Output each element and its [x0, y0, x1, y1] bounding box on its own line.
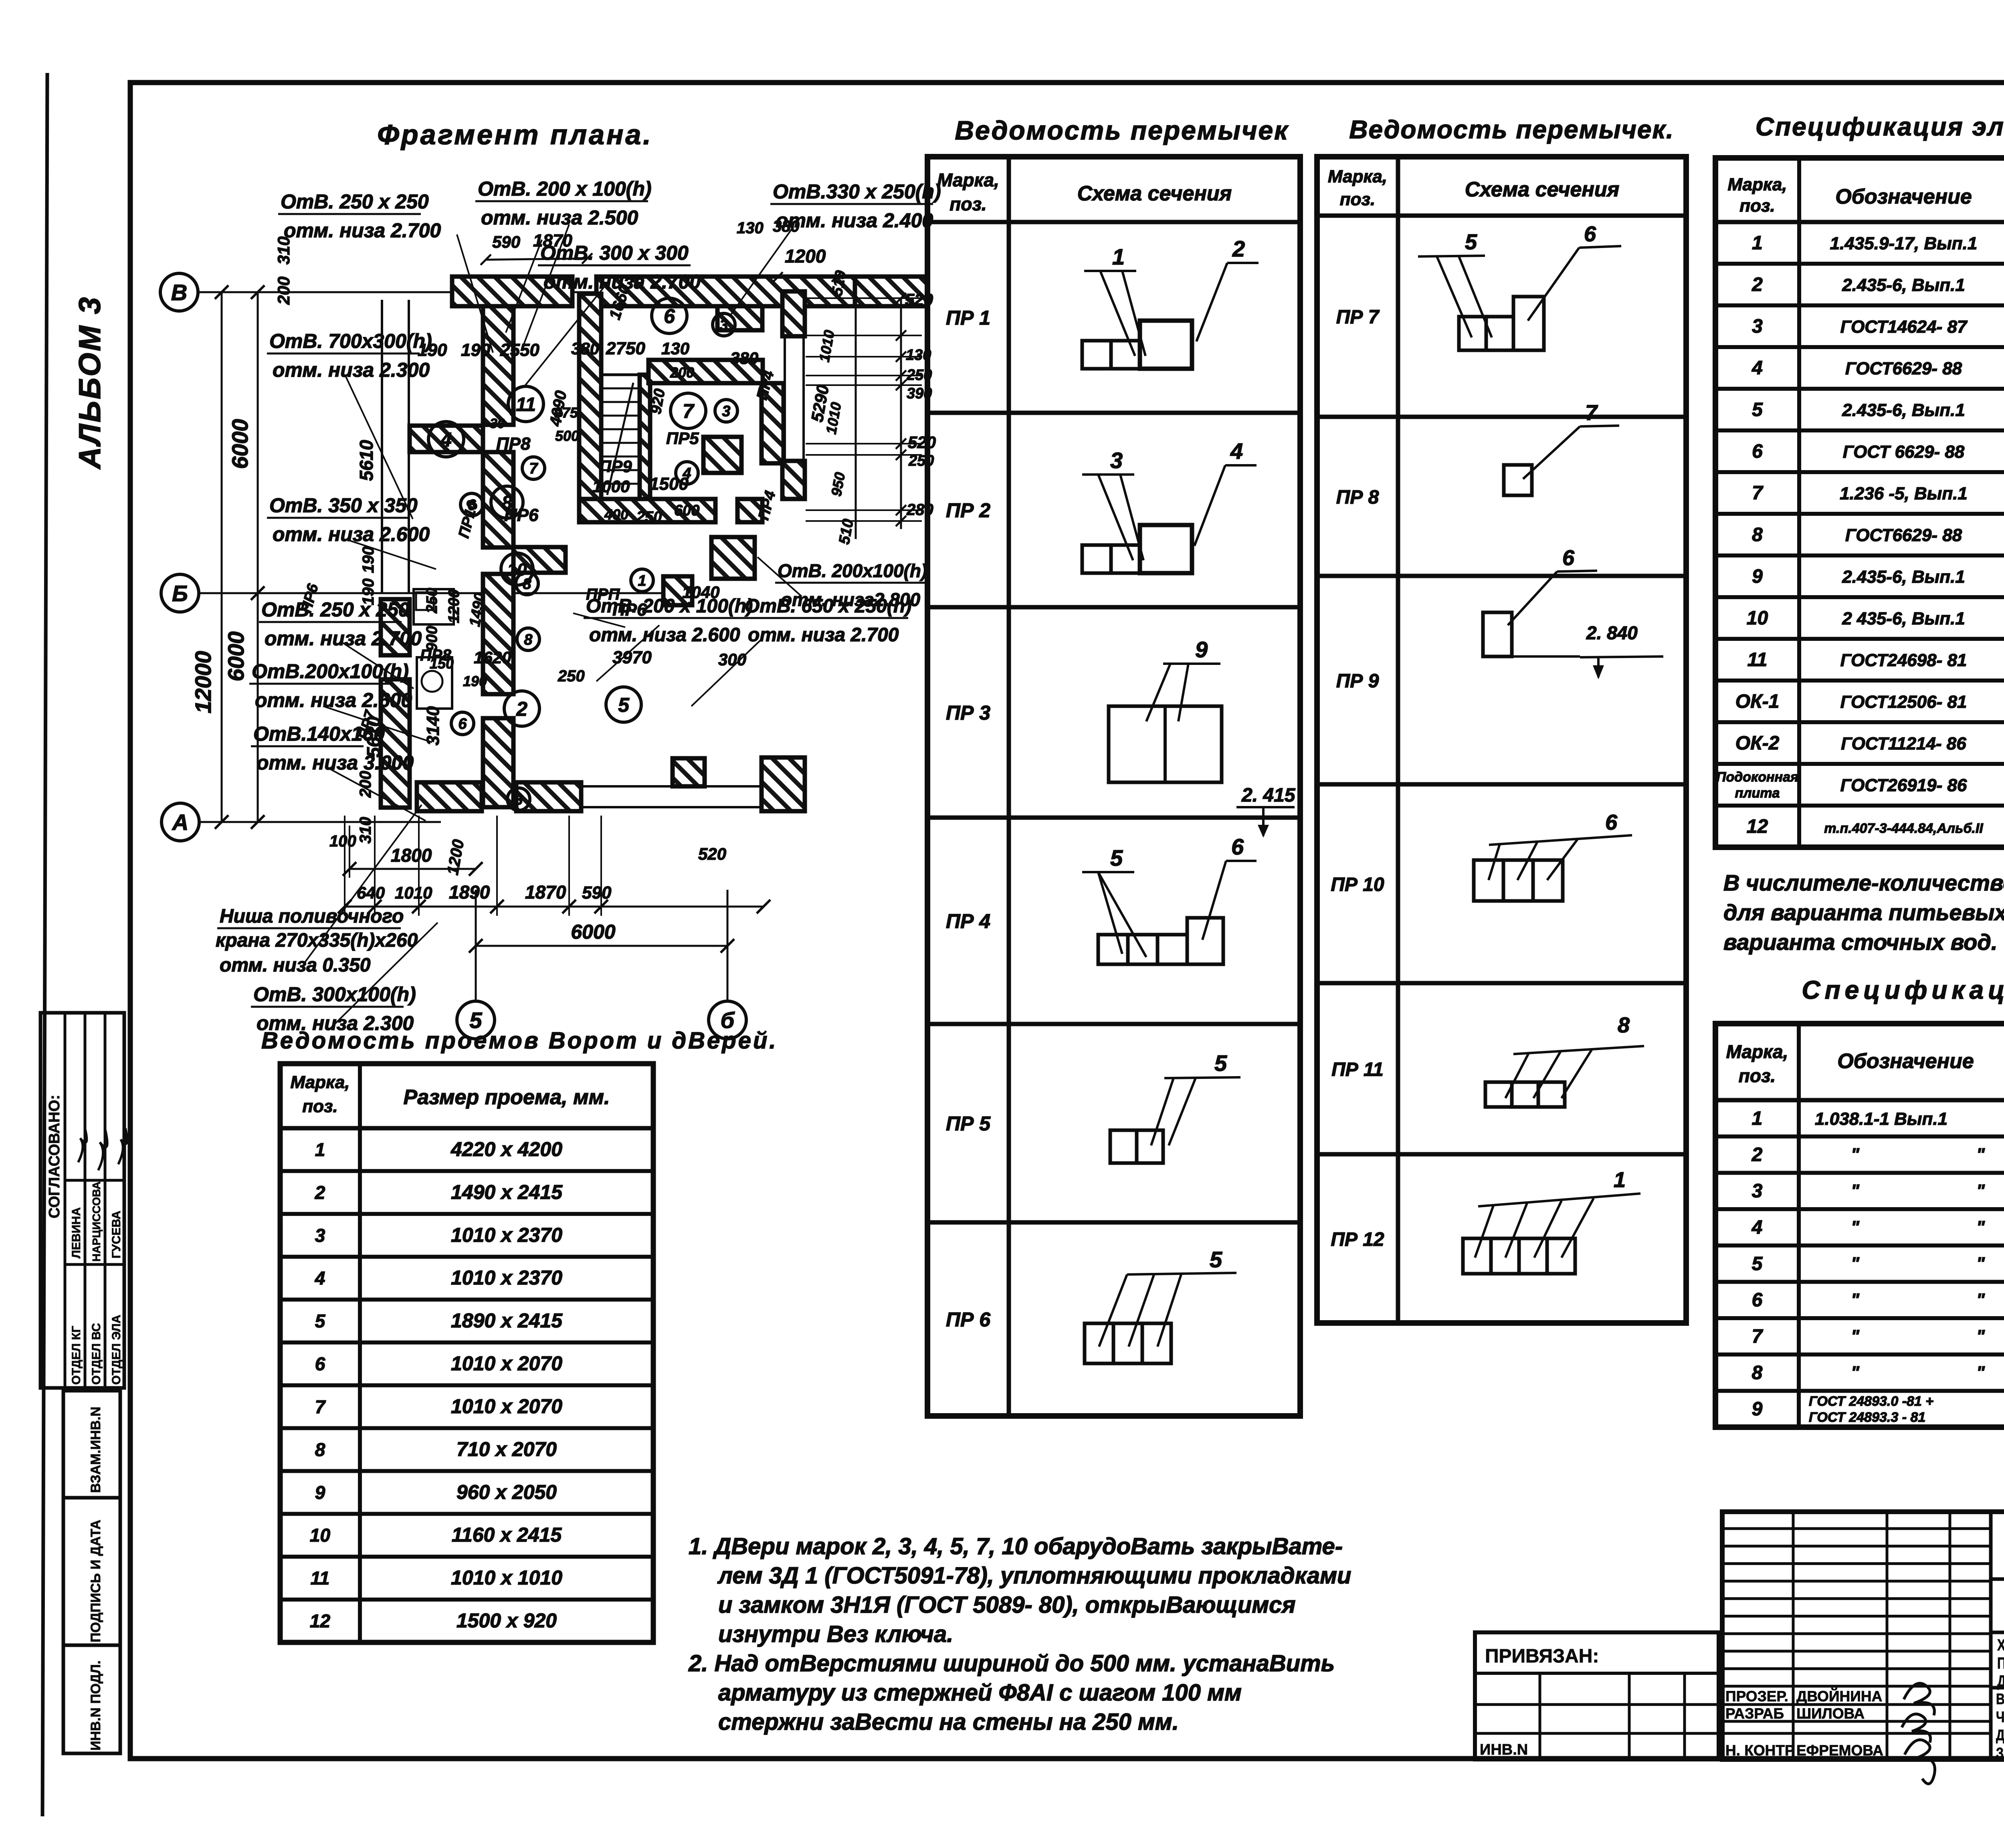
left exterior wall pieces Б-А [381, 599, 410, 655]
left stamp: ПОДПИСЬ И ДАТА box [63, 1498, 120, 1645]
svg-text:ИНВ.N: ИНВ.N [1480, 1741, 1528, 1758]
svg-text:ХЛОРАТОРНАЯ ДЛЯ ОБЕЗЗАРАЖИВАНИ: ХЛОРАТОРНАЯ ДЛЯ ОБЕЗЗАРАЖИВАНИЯ [1997, 1636, 2004, 1654]
svg-text:1490 х 2415: 1490 х 2415 [451, 1181, 563, 1203]
svg-text:380: 380 [773, 218, 800, 235]
svg-text:5: 5 [315, 1311, 326, 1331]
svg-text:190: 190 [461, 340, 491, 360]
svg-text:ПР 12: ПР 12 [1331, 1229, 1384, 1250]
svg-text:6: 6 [1605, 810, 1618, 834]
svg-text:2.435-6, Вып.1: 2.435-6, Вып.1 [1842, 275, 1965, 295]
svg-text:крана 270х335(h)х260: крана 270х335(h)х260 [216, 930, 418, 951]
ПР9 section diagram [1483, 612, 1512, 656]
svg-text:5: 5 [1110, 845, 1123, 870]
svg-text:7: 7 [683, 400, 695, 422]
svg-text:7: 7 [1752, 1326, 1764, 1347]
svg-text:": " [1976, 1181, 1985, 1201]
svg-text:отм. низа 2.600: отм. низа 2.600 [255, 689, 412, 711]
svg-text:310: 310 [357, 817, 374, 844]
svg-text:ПР 1: ПР 1 [946, 307, 990, 329]
svg-text:для варианта питьевых вод, в з: для варианта питьевых вод, в знаменателе… [1723, 900, 2004, 925]
svg-text:ПОДПИСЬ И ДАТА: ПОДПИСЬ И ДАТА [88, 1520, 103, 1642]
svg-text:ГУСЕВА: ГУСЕВА [110, 1211, 123, 1258]
svg-text:130: 130 [737, 219, 764, 237]
svg-text:Марка,: Марка, [937, 170, 999, 190]
svg-text:ЧЕК. ВЕДОМОСТЬ ПРОЕМОВ ВОРОТ И: ЧЕК. ВЕДОМОСТЬ ПРОЕМОВ ВОРОТ И [1996, 1709, 2004, 1726]
svg-text:ГОСТ6629- 88: ГОСТ6629- 88 [1845, 359, 1962, 378]
svg-text:1800: 1800 [391, 845, 432, 866]
svg-text:520: 520 [908, 433, 936, 452]
svg-text:ПР 9: ПР 9 [1336, 671, 1379, 692]
svg-text:4: 4 [1230, 438, 1243, 464]
svg-text:ГОСТ6629- 88: ГОСТ6629- 88 [1845, 525, 1962, 545]
svg-text:ОТДЕЛ ЭЛА: ОТДЕЛ ЭЛА [110, 1315, 123, 1385]
svg-text:6: 6 [1562, 546, 1575, 570]
svg-text:1.435.9-17, Вып.1: 1.435.9-17, Вып.1 [1830, 234, 1978, 253]
svg-text:Ведомость перемычек: Ведомость перемычек [955, 115, 1289, 145]
room number circles [428, 422, 464, 457]
svg-text:поз.: поз. [1340, 190, 1375, 209]
svg-text:Марка,: Марка, [1727, 175, 1787, 194]
svg-text:1160 х 2415: 1160 х 2415 [452, 1524, 562, 1546]
svg-text:1: 1 [1752, 232, 1763, 254]
svg-text:отм. низа 0.350: отм. низа 0.350 [220, 955, 371, 976]
inner wall column x1205 [483, 306, 513, 425]
svg-text:4220 х 4200: 4220 х 4200 [450, 1138, 562, 1160]
svg-text:отм. низа 2.700: отм. низа 2.700 [543, 271, 701, 293]
svg-text:7: 7 [1585, 401, 1598, 425]
svg-text:отм. низа 2.700: отм. низа 2.700 [284, 219, 441, 242]
leader lines [457, 234, 493, 353]
svg-text:1620: 1620 [474, 648, 511, 667]
svg-text:Марка,: Марка, [290, 1072, 349, 1092]
svg-text:2.435-6, Вып.1: 2.435-6, Вып.1 [1842, 567, 1965, 587]
svg-text:ОтВ. 250 х 250: ОтВ. 250 х 250 [281, 190, 429, 213]
svg-text:": " [1851, 1217, 1860, 1237]
svg-text:ПР 3: ПР 3 [946, 702, 990, 724]
svg-text:2750: 2750 [606, 339, 645, 358]
svg-text:Размер проема, мм.: Размер проема, мм. [404, 1086, 610, 1109]
svg-text:ОК-1: ОК-1 [1735, 691, 1780, 712]
svg-text:250: 250 [636, 509, 662, 525]
svg-text:1200: 1200 [785, 246, 826, 267]
svg-text:250: 250 [558, 667, 585, 685]
svg-text:ГОСТ14624- 87: ГОСТ14624- 87 [1840, 317, 1968, 337]
svg-text:ГОСТ11214- 86: ГОСТ11214- 86 [1841, 734, 1966, 753]
svg-text:5: 5 [1752, 399, 1763, 420]
sheet outer left edge line [42, 73, 47, 1816]
floor plan: axis Б [161, 574, 199, 612]
signatures squiggles [78, 1128, 87, 1162]
floor plan: bottom axis б [709, 1001, 746, 1039]
svg-text:ПР 7: ПР 7 [1336, 307, 1380, 328]
svg-text:5: 5 [1214, 1050, 1227, 1076]
svg-text:4: 4 [1751, 1217, 1763, 1238]
svg-text:и замком 3Н1Я (ГОСТ 5089- 80),: и замком 3Н1Я (ГОСТ 5089- 80), открыВающ… [718, 1592, 1296, 1618]
svg-text:2: 2 [315, 1182, 325, 1203]
svg-text:Схема сечения: Схема сечения [1077, 182, 1232, 205]
svg-text:1010 х 2370: 1010 х 2370 [451, 1266, 562, 1289]
svg-text:7: 7 [1752, 483, 1764, 504]
svg-text:ОтВ. 200 х 100(h): ОтВ. 200 х 100(h) [586, 596, 753, 617]
svg-text:3: 3 [514, 792, 523, 808]
svg-text:ВЗАМ.ИНВ.N: ВЗАМ.ИНВ.N [88, 1407, 103, 1493]
svg-text:Подоконная: Подоконная [1716, 769, 1798, 785]
svg-text:Н. КОНТР: Н. КОНТР [1725, 1742, 1795, 1759]
svg-text:400: 400 [604, 506, 628, 523]
wall below stairs y1245 [579, 499, 715, 522]
svg-text:лем 3Д 1 (ГОСТ5091-78), уплотн: лем 3Д 1 (ГОСТ5091-78), уплотняющими про… [717, 1563, 1351, 1589]
svg-text:Обозначение: Обозначение [1837, 1050, 1974, 1073]
svg-text:1870: 1870 [525, 882, 566, 903]
svg-text:ГОСТ12506- 81: ГОСТ12506- 81 [1840, 692, 1967, 712]
table: Ведомость перемычек (2) grid [1317, 157, 1686, 1323]
svg-text:12: 12 [310, 1611, 331, 1632]
svg-text:6: 6 [315, 1353, 325, 1374]
svg-text:8: 8 [1752, 1362, 1763, 1383]
svg-text:3: 3 [722, 403, 730, 420]
svg-text:отм. низа 2.300: отм. низа 2.300 [273, 359, 430, 381]
svg-text:1.236 -5, Вып.1: 1.236 -5, Вып.1 [1840, 484, 1968, 503]
svg-text:2. 415: 2. 415 [1241, 785, 1296, 806]
ПР10 section diagram [1474, 860, 1503, 901]
svg-text:3970: 3970 [612, 648, 652, 667]
svg-text:АЛЬБОМ 3: АЛЬБОМ 3 [73, 296, 107, 470]
svg-text:Ниша поливочного: Ниша поливочного [220, 906, 404, 927]
ПР1 section diagram [1082, 341, 1111, 369]
svg-text:ОтВ. 200 х 100(h): ОтВ. 200 х 100(h) [478, 178, 652, 200]
svg-text:1010 х 2070: 1010 х 2070 [451, 1352, 562, 1375]
svg-text:5: 5 [618, 694, 630, 716]
svg-text:2550: 2550 [500, 340, 539, 360]
svg-text:": " [1976, 1254, 1985, 1273]
svg-text:2. 840: 2. 840 [1586, 622, 1638, 643]
svg-text:6000: 6000 [571, 921, 615, 943]
bottom dimension chains [349, 868, 476, 870]
svg-text:ГОСТ 24893.3 - 81: ГОСТ 24893.3 - 81 [1809, 1410, 1925, 1425]
floor plan: axis В [160, 273, 198, 311]
svg-text:Марка,: Марка, [1726, 1041, 1788, 1062]
svg-text:отм. низа 3.000: отм. низа 3.000 [257, 751, 414, 774]
svg-text:ЛЕВИНА: ЛЕВИНА [70, 1207, 83, 1258]
svg-text:СОГЛАСОВАНО:: СОГЛАСОВАНО: [46, 1095, 63, 1218]
svg-text:ОтВ. 350 х 350: ОтВ. 350 х 350 [269, 494, 418, 517]
mid horizontal wall y1060 (left part) [410, 426, 483, 452]
svg-text:8: 8 [1752, 524, 1763, 545]
svg-text:поз.: поз. [1739, 1065, 1776, 1086]
vedomost proemov grid [280, 1064, 653, 1642]
title block: main stamp [1722, 1512, 2004, 1759]
svg-text:ПР 11: ПР 11 [1331, 1059, 1384, 1081]
svg-text:В: В [171, 280, 187, 305]
svg-text:ДВЕРЕЙ, СПЕЦИФИКАЦИЯ ЭЛЕМЕНТО: ДВЕРЕЙ, СПЕЦИФИКАЦИЯ ЭЛЕМЕНТОВ [1996, 1726, 2004, 1744]
svg-text:ОтВ. 200х100(h): ОтВ. 200х100(h) [778, 560, 927, 581]
wall between rooms 6 and 7 [648, 360, 763, 383]
svg-text:плита: плита [1735, 786, 1780, 801]
svg-text:ПР 8: ПР 8 [1336, 487, 1379, 508]
ПР8 section diagram [1504, 465, 1532, 495]
svg-text:изнутри Вез ключа.: изнутри Вез ключа. [718, 1621, 953, 1647]
svg-text:200: 200 [274, 277, 293, 305]
svg-text:ПРИВЯЗАН:: ПРИВЯЗАН: [1485, 1646, 1599, 1667]
svg-text:отм. низа 2.600: отм. низа 2.600 [589, 624, 740, 646]
ПР12 section diagram [1463, 1238, 1491, 1274]
svg-text:11: 11 [516, 394, 536, 415]
svg-text:ОтВ.200х100(h): ОтВ.200х100(h) [252, 660, 409, 683]
svg-text:арматуру из стержней Ф8АI с: арматуру из стержней Ф8АI с шагом 100 мм [718, 1680, 1242, 1706]
svg-text:130: 130 [661, 339, 689, 358]
svg-text:1010: 1010 [395, 883, 432, 902]
svg-text:ВЕДОМОСТЬ И СПЕЦИФИКАЦИЯ ПЕРЕМ: ВЕДОМОСТЬ И СПЕЦИФИКАЦИЯ ПЕРЕМЫ- [1996, 1691, 2004, 1708]
svg-text:Спецификация элементов заполне: Спецификация элементов заполнения проемо… [1756, 112, 2004, 141]
svg-text:": " [1851, 1145, 1860, 1164]
svg-text:отм. низа 2.700: отм. низа 2.700 [265, 627, 422, 650]
spec peremychek grid [1715, 1024, 2004, 1427]
svg-text:6: 6 [664, 305, 675, 327]
svg-text:8: 8 [524, 632, 533, 648]
ПР4 section diagram [1098, 935, 1128, 964]
names column thin rows [1722, 1527, 1991, 1530]
svg-text:6: 6 [1584, 222, 1596, 246]
svg-text:710 х 2070: 710 х 2070 [457, 1438, 557, 1460]
ПР11 section diagram [1485, 1082, 1512, 1107]
svg-text:ПР9: ПР9 [599, 457, 632, 476]
svg-text:НАРЦИССОВА: НАРЦИССОВА [90, 1182, 103, 1262]
svg-text:ОТДЕЛ КГ: ОТДЕЛ КГ [70, 1326, 83, 1385]
svg-text:ГОСТ 6629- 88: ГОСТ 6629- 88 [1843, 442, 1965, 462]
svg-text:": " [1851, 1326, 1860, 1346]
svg-text:30: 30 [490, 416, 505, 431]
svg-text:ГОСТ24698- 81: ГОСТ24698- 81 [1840, 650, 1967, 670]
left dimension chain 6000/6000 [257, 292, 259, 822]
svg-text:6: 6 [458, 716, 467, 733]
room7 right wall [762, 383, 784, 463]
svg-text:1: 1 [1614, 1168, 1626, 1192]
svg-text:ПР 4: ПР 4 [946, 910, 990, 933]
svg-text:6: 6 [1752, 441, 1763, 462]
svg-text:1: 1 [315, 1139, 325, 1160]
svg-text:2: 2 [1232, 236, 1245, 261]
svg-text:ИНВ.N ПОДЛ.: ИНВ.N ПОДЛ. [88, 1660, 103, 1751]
ПР6 section diagram [1085, 1323, 1113, 1363]
svg-text:ОТДЕЛ ВС: ОТДЕЛ ВС [90, 1323, 103, 1385]
svg-text:поз.: поз. [1739, 196, 1775, 216]
svg-text:1: 1 [638, 573, 646, 590]
left stamp: ВЗАМ.ИНВ.N box [63, 1391, 120, 1498]
svg-text:11: 11 [1747, 649, 1768, 671]
signature squiggles [1904, 1683, 1934, 1715]
svg-text:ПР8: ПР8 [496, 434, 531, 454]
svg-text:9: 9 [315, 1482, 325, 1503]
svg-text:Схема сечения: Схема сечения [1465, 178, 1620, 201]
svg-text:": " [1851, 1254, 1860, 1273]
svg-text:590: 590 [492, 232, 520, 251]
svg-text:1010 х 1010: 1010 х 1010 [451, 1567, 562, 1589]
bottom right L-wall pieces [711, 537, 755, 579]
svg-text:1890: 1890 [449, 882, 490, 903]
svg-text:1010 х 2070: 1010 х 2070 [451, 1395, 562, 1418]
svg-text:3: 3 [1752, 1181, 1763, 1202]
ПР3 section diagram [1109, 706, 1222, 782]
svg-text:12: 12 [1747, 816, 1768, 837]
svg-text:9: 9 [1752, 566, 1763, 587]
svg-text:ГОСТ 24893.0 -81 +: ГОСТ 24893.0 -81 + [1809, 1394, 1933, 1409]
svg-text:ШИЛОВА: ШИЛОВА [1796, 1705, 1865, 1722]
svg-text:500: 500 [555, 428, 579, 444]
stair right wall [640, 375, 650, 499]
svg-text:1.038.1-1 Вып.1: 1.038.1-1 Вып.1 [1815, 1109, 1947, 1129]
svg-text:200: 200 [670, 364, 694, 381]
wall left of stairs [579, 294, 601, 500]
svg-text:12000: 12000 [190, 651, 216, 713]
floor plan: axis А [162, 803, 199, 841]
svg-text:8: 8 [315, 1439, 325, 1460]
svg-text:960 х 2050: 960 х 2050 [457, 1481, 557, 1503]
svg-text:6000: 6000 [227, 419, 253, 469]
svg-text:": " [1976, 1326, 1985, 1346]
svg-text:1: 1 [1752, 1108, 1763, 1129]
svg-text:2: 2 [516, 698, 527, 720]
svg-text:6000: 6000 [223, 631, 248, 681]
svg-text:2.435-6, Вып.1: 2.435-6, Вып.1 [1842, 400, 1965, 420]
svg-text:600: 600 [674, 502, 699, 519]
svg-text:4: 4 [1751, 357, 1763, 379]
bottom wall along axis А [417, 782, 482, 811]
svg-text:отм. низа2.800: отм. низа2.800 [781, 589, 920, 610]
svg-text:520: 520 [698, 844, 726, 863]
left stamp: ИНВ.N ПОДЛ box [63, 1645, 120, 1753]
svg-text:отм. низа 2.600: отм. низа 2.600 [273, 523, 430, 545]
svg-text:А: А [172, 810, 188, 835]
svg-text:стержни заВести на стены н: стержни заВести на стены на 250 мм. [718, 1709, 1179, 1735]
svg-text:975: 975 [554, 404, 578, 421]
svg-text:": " [1976, 1145, 1985, 1164]
svg-text:ОтВ.330 х 250(h): ОтВ.330 х 250(h) [773, 180, 941, 203]
svg-text:3: 3 [1110, 448, 1123, 473]
svg-text:Марка,: Марка, [1328, 167, 1387, 186]
svg-text:2 435-6, Вып.1: 2 435-6, Вып.1 [1842, 609, 1965, 628]
svg-text:отм. низа 2.500: отм. низа 2.500 [481, 206, 638, 229]
top exterior wall along axis В [452, 277, 572, 306]
svg-text:ОтВ. 700х300(h): ОтВ. 700х300(h) [269, 330, 432, 352]
svg-text:Б: Б [172, 581, 188, 606]
floor plan: bottom axis 5 [457, 1001, 495, 1039]
svg-text:ПИТЬЕВЫХ И СТОЧНЫХ ВОД ПРОИЗВО: ПИТЬЕВЫХ И СТОЧНЫХ ВОД ПРОИЗВО- [1997, 1654, 2004, 1672]
ПР5 pier [703, 437, 741, 473]
ПР2 section diagram [1082, 545, 1111, 573]
svg-text:1890 х 2415: 1890 х 2415 [451, 1309, 563, 1332]
svg-text:ОтВ.140х160: ОтВ.140х160 [253, 723, 385, 745]
stair shaft [601, 375, 640, 499]
svg-text:6: 6 [1752, 1290, 1763, 1311]
svg-text:ДВОЙНИНА: ДВОЙНИНА [1796, 1688, 1882, 1705]
left dimension chain 12000 [221, 292, 223, 822]
wc fixtures [414, 589, 454, 624]
svg-text:3: 3 [719, 317, 728, 334]
svg-text:ПР 6: ПР 6 [946, 1309, 991, 1331]
svg-text:100: 100 [329, 832, 356, 850]
svg-text:1000: 1000 [592, 477, 630, 496]
svg-text:ЗАПОЛНЕНИЯ ПРОЕМОВ. ФРАГМЕНТ П: ЗАПОЛНЕНИЯ ПРОЕМОВ. ФРАГМЕНТ ПЛАНА [1996, 1745, 2004, 1762]
svg-text:3: 3 [1752, 316, 1763, 337]
svg-text:6: 6 [1231, 834, 1244, 859]
svg-text:ОК-2: ОК-2 [1735, 733, 1780, 754]
title block: ПРИВЯЗАН annex [1475, 1632, 1719, 1759]
svg-text:190: 190 [360, 546, 377, 573]
svg-text:поз.: поз. [302, 1097, 337, 1116]
svg-text:1010 х 2370: 1010 х 2370 [451, 1224, 562, 1246]
svg-text:поз.: поз. [949, 194, 986, 214]
svg-text:1500 х 920: 1500 х 920 [457, 1610, 557, 1632]
svg-text:3: 3 [315, 1225, 325, 1246]
svg-text:10: 10 [1747, 608, 1768, 629]
svg-text:ЕФРЕМОВА: ЕФРЕМОВА [1796, 1742, 1883, 1759]
svg-text:1500: 1500 [649, 474, 689, 494]
svg-text:9: 9 [1195, 637, 1208, 662]
left stamp: СОГЛАСОВАНО block [40, 1013, 124, 1388]
svg-text:9: 9 [1752, 1399, 1763, 1420]
svg-text:380: 380 [730, 349, 758, 368]
svg-text:отм. низа 2.700: отм. низа 2.700 [748, 624, 899, 646]
svg-text:т.п.407-3-444.84,Альб.II: т.п.407-3-444.84,Альб.II [1824, 821, 1984, 836]
svg-text:2: 2 [1751, 274, 1763, 295]
svg-text:": " [1851, 1363, 1860, 1382]
svg-text:11: 11 [311, 1568, 330, 1589]
svg-text:варианта сточных вод.: варианта сточных вод. [1723, 929, 1998, 955]
svg-text:5610: 5610 [356, 440, 377, 481]
ПР5 section diagram [1110, 1130, 1137, 1163]
svg-text:4: 4 [315, 1268, 325, 1289]
svg-text:": " [1976, 1290, 1985, 1310]
big spec table grid [1715, 158, 2004, 847]
svg-text:1. ДВери марок 2, 3, 4, 5, 7,: 1. ДВери марок 2, 3, 4, 5, 7, 10 обарудо… [689, 1533, 1343, 1559]
svg-text:4: 4 [440, 428, 452, 451]
svg-text:5: 5 [1465, 230, 1477, 254]
svg-text:7: 7 [315, 1396, 326, 1417]
svg-text:380: 380 [571, 339, 599, 358]
svg-text:590: 590 [582, 883, 612, 903]
svg-text:150: 150 [430, 655, 454, 672]
ПР7 section diagram [1459, 317, 1486, 350]
svg-text:190: 190 [463, 673, 487, 689]
right exterior wall lines and piers [784, 291, 786, 499]
svg-text:5: 5 [1210, 1247, 1222, 1272]
svg-text:Ведомость проемов Ворот и дВер: Ведомость проемов Ворот и дВерей. [261, 1028, 778, 1054]
ТП 901-7-17.90 cell [1989, 1512, 1993, 1759]
svg-text:Фрагмент плана.: Фрагмент плана. [377, 119, 653, 150]
svg-text:": " [1851, 1290, 1860, 1310]
svg-text:отм. низа 2.400: отм. низа 2.400 [776, 209, 933, 232]
svg-text:Обозначение: Обозначение [1835, 185, 1972, 208]
svg-text:В числителе-количество окон и: В числителе-количество окон и подоконных… [1723, 870, 2004, 895]
svg-text:ПР 5: ПР 5 [946, 1113, 991, 1135]
svg-text:": " [1851, 1181, 1860, 1201]
svg-text:РАЗРАБ: РАЗРАБ [1725, 1705, 1784, 1722]
svg-text:Спецификация перемычек.: Спецификация перемычек. [1802, 976, 2004, 1004]
svg-text:Ведомость перемычек.: Ведомость перемычек. [1349, 115, 1674, 144]
svg-text:ПР 2: ПР 2 [946, 499, 990, 522]
table: Ведомость перемычек (1) grid [927, 157, 1300, 1416]
left outer wall thin lines В-Б [381, 300, 383, 593]
right side dimension chain [855, 277, 857, 539]
svg-text:ПР 10: ПР 10 [1331, 874, 1384, 895]
svg-text:5: 5 [1752, 1253, 1763, 1274]
svg-text:ОтВ. 300х100(h): ОтВ. 300х100(h) [253, 983, 416, 1006]
svg-text:1: 1 [1112, 244, 1125, 269]
svg-text:ОтВ. 250 х 250: ОтВ. 250 х 250 [261, 598, 410, 621]
svg-text:": " [1976, 1363, 1985, 1382]
svg-text:": " [1976, 1217, 1985, 1237]
top wall jog ПР4 [717, 306, 762, 330]
